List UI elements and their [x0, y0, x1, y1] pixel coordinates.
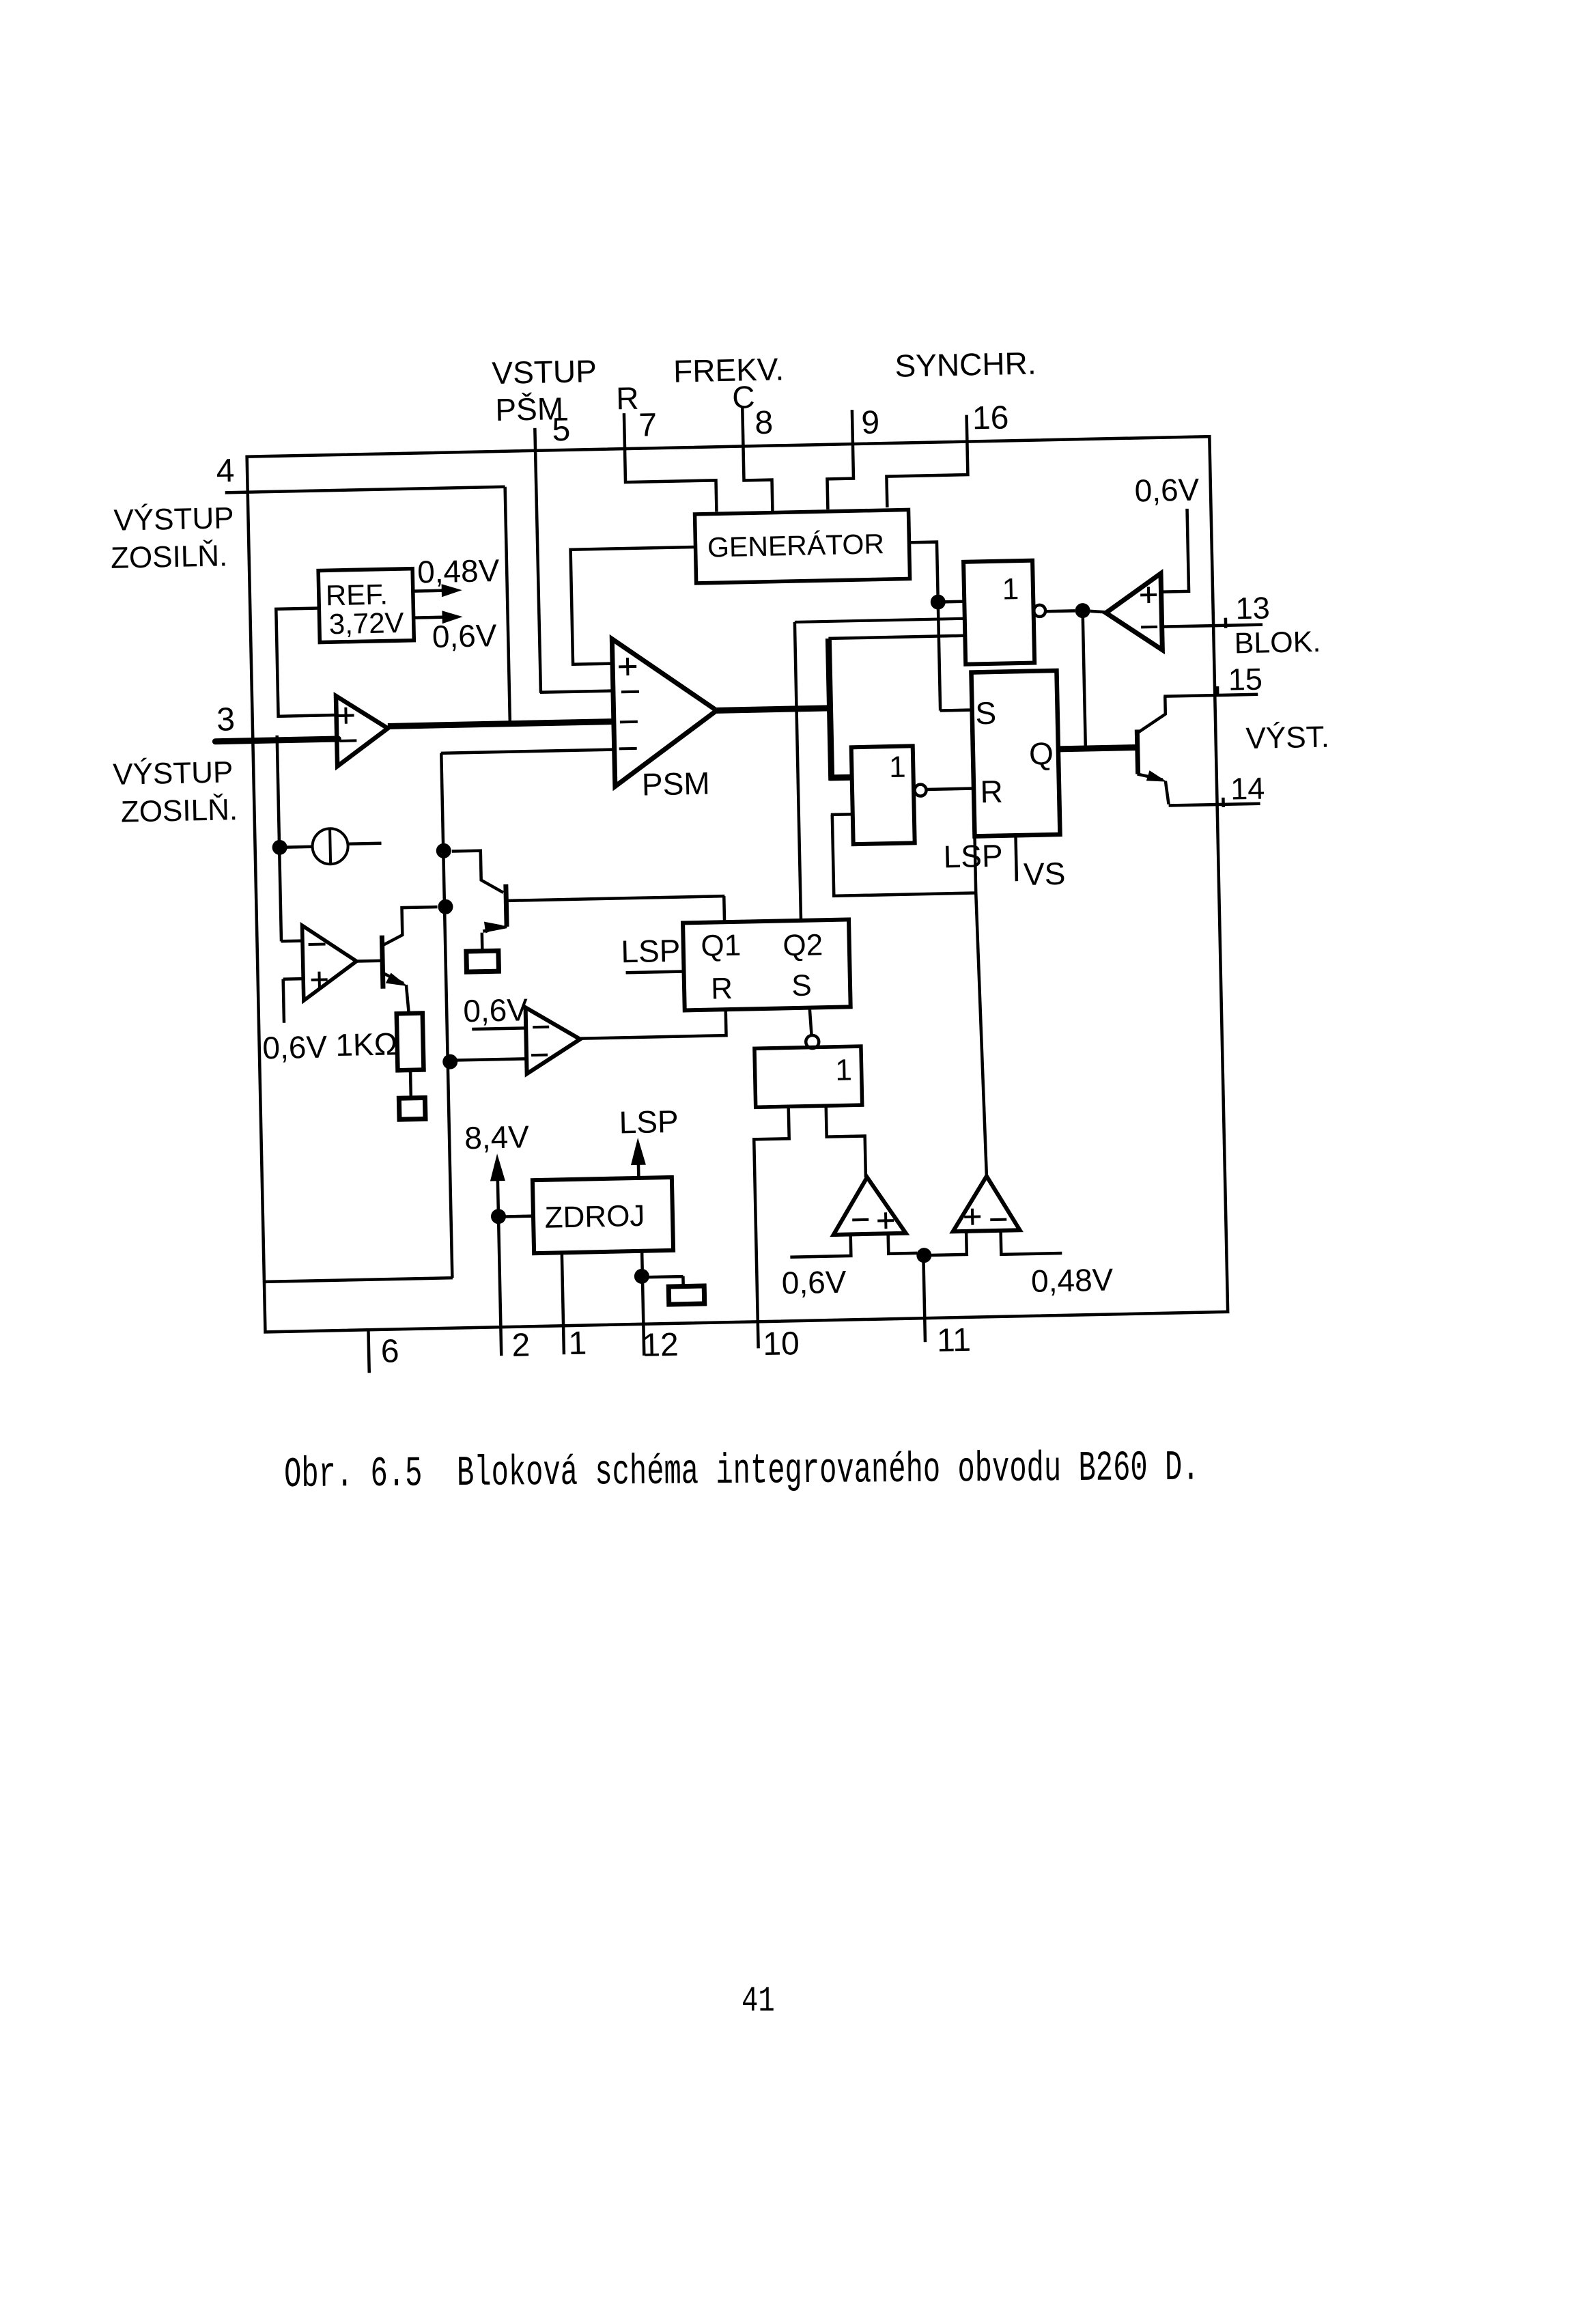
svg-text:S: S [975, 695, 997, 731]
svg-text:VSTUP: VSTUP [492, 353, 597, 391]
svg-text:PSM: PSM [641, 766, 710, 802]
svg-text:1: 1 [568, 1326, 587, 1362]
svg-text:0,6V: 0,6V [1134, 471, 1200, 508]
svg-text:5: 5 [552, 412, 571, 449]
svg-text:7: 7 [638, 407, 658, 444]
svg-text:VS: VS [1023, 856, 1065, 892]
svg-text:VÝSTUP: VÝSTUP [113, 501, 234, 537]
svg-text:6: 6 [380, 1333, 399, 1370]
svg-text:Q2: Q2 [782, 928, 823, 962]
svg-text:Obr. 6.5 Bloková schéma integ: Obr. 6.5 Bloková schéma integrovaného ob… [284, 1444, 1200, 1499]
svg-text:1KΩ: 1KΩ [335, 1026, 398, 1063]
svg-text:2: 2 [511, 1327, 531, 1364]
svg-text:C: C [732, 379, 755, 415]
svg-text:Q: Q [1029, 736, 1054, 772]
svg-text:41: 41 [742, 1982, 775, 2022]
svg-text:11: 11 [936, 1322, 971, 1359]
svg-text:ZOSILŇ.: ZOSILŇ. [120, 793, 238, 829]
svg-text:VÝSTUP: VÝSTUP [113, 755, 234, 792]
svg-text:1: 1 [1002, 572, 1019, 606]
svg-text:LSP: LSP [943, 838, 1003, 875]
svg-text:3,72V: 3,72V [328, 606, 404, 640]
svg-text:S: S [791, 969, 812, 1003]
svg-text:VÝST.: VÝST. [1245, 720, 1329, 756]
svg-text:0,6V: 0,6V [781, 1264, 847, 1301]
svg-text:4: 4 [216, 453, 235, 490]
svg-text:LSP: LSP [619, 1104, 679, 1140]
svg-text:1: 1 [889, 751, 907, 785]
svg-text:1: 1 [835, 1053, 853, 1087]
svg-text:8: 8 [754, 405, 774, 442]
svg-text:R: R [980, 774, 1003, 810]
svg-text:15: 15 [1228, 662, 1262, 697]
svg-text:13: 13 [1235, 590, 1270, 626]
svg-text:ZOSILŇ.: ZOSILŇ. [111, 539, 228, 575]
svg-text:Q1: Q1 [701, 929, 742, 963]
svg-text:GENERÁTOR: GENERÁTOR [707, 528, 885, 563]
svg-text:10: 10 [763, 1326, 800, 1362]
svg-text:0,48V: 0,48V [1031, 1261, 1114, 1299]
svg-text:3: 3 [216, 701, 236, 738]
svg-text:9: 9 [861, 404, 880, 441]
svg-text:0,6V: 0,6V [463, 992, 528, 1028]
svg-text:0,48V: 0,48V [417, 552, 500, 590]
svg-text:LSP: LSP [621, 933, 681, 970]
svg-text:0,6V: 0,6V [262, 1028, 328, 1065]
svg-text:FREKV.: FREKV. [673, 351, 785, 389]
svg-text:ZDROJ: ZDROJ [544, 1199, 645, 1235]
svg-text:8,4V: 8,4V [464, 1119, 530, 1156]
svg-text:SYNCHR.: SYNCHR. [894, 345, 1036, 383]
svg-text:14: 14 [1230, 771, 1265, 807]
svg-text:0,6V: 0,6V [432, 617, 497, 654]
svg-text:R: R [616, 380, 639, 417]
svg-text:16: 16 [972, 400, 1008, 436]
svg-text:12: 12 [642, 1327, 679, 1364]
svg-text:R: R [711, 972, 733, 1006]
svg-text:BLOK.: BLOK. [1234, 626, 1321, 660]
